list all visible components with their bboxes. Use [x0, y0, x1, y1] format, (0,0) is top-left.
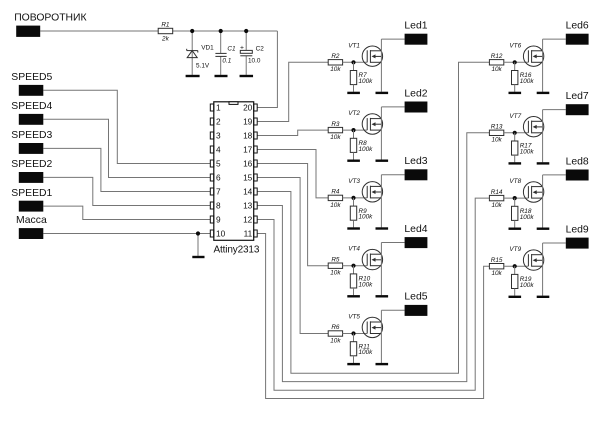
svg-text:VT4: VT4	[348, 246, 360, 253]
svg-text:100k: 100k	[359, 349, 374, 356]
svg-text:Led8: Led8	[566, 156, 589, 167]
svg-text:SPEED3: SPEED3	[11, 130, 52, 141]
svg-text:2k: 2k	[161, 35, 170, 42]
svg-text:15: 15	[243, 173, 253, 183]
svg-text:C1: C1	[227, 46, 236, 53]
svg-text:Led7: Led7	[566, 91, 589, 102]
svg-text:VT5: VT5	[348, 314, 360, 321]
svg-text:20: 20	[243, 103, 253, 113]
svg-text:100k: 100k	[520, 214, 535, 221]
svg-text:18: 18	[243, 131, 253, 141]
svg-text:10k: 10k	[330, 134, 341, 141]
svg-text:17: 17	[243, 145, 253, 155]
svg-text:VT9: VT9	[509, 246, 521, 253]
svg-text:19: 19	[243, 117, 253, 127]
svg-text:SPEED4: SPEED4	[11, 101, 52, 112]
svg-text:10k: 10k	[330, 202, 341, 209]
svg-text:100k: 100k	[520, 282, 535, 289]
svg-text:100k: 100k	[359, 281, 374, 288]
svg-text:10k: 10k	[491, 66, 502, 73]
svg-text:R2: R2	[331, 53, 340, 60]
svg-text:16: 16	[243, 159, 253, 169]
svg-text:SPEED2: SPEED2	[11, 159, 52, 170]
svg-text:VT7: VT7	[509, 113, 521, 120]
svg-text:VT3: VT3	[348, 178, 360, 185]
svg-text:12: 12	[243, 215, 253, 225]
svg-text:10k: 10k	[330, 66, 341, 73]
svg-text:14: 14	[243, 187, 253, 197]
svg-text:Led9: Led9	[566, 224, 589, 235]
svg-text:Led2: Led2	[404, 88, 427, 99]
svg-text:5.1V: 5.1V	[196, 63, 210, 70]
svg-text:4: 4	[216, 145, 221, 155]
svg-text:10k: 10k	[330, 270, 341, 277]
svg-text:VT1: VT1	[348, 42, 360, 49]
svg-text:6: 6	[216, 173, 221, 183]
svg-text:R6: R6	[331, 324, 340, 331]
svg-text:R14: R14	[491, 189, 503, 196]
svg-text:VT6: VT6	[509, 42, 521, 49]
svg-text:R13: R13	[491, 124, 503, 131]
svg-text:SPEED1: SPEED1	[11, 188, 52, 199]
svg-text:9: 9	[216, 215, 221, 225]
svg-text:100k: 100k	[359, 214, 374, 221]
svg-text:R12: R12	[491, 53, 503, 60]
svg-text:Attiny2313: Attiny2313	[214, 244, 260, 255]
svg-text:VT8: VT8	[509, 178, 521, 185]
svg-text:R1: R1	[161, 22, 170, 29]
svg-text:100k: 100k	[520, 149, 535, 156]
svg-text:Led5: Led5	[404, 292, 427, 303]
svg-text:R5: R5	[331, 256, 340, 263]
svg-text:3: 3	[216, 131, 221, 141]
svg-text:SPEED5: SPEED5	[11, 72, 52, 83]
svg-text:0.1: 0.1	[222, 58, 231, 65]
svg-text:100k: 100k	[359, 78, 374, 85]
svg-text:R3: R3	[331, 121, 340, 128]
svg-text:Масса: Масса	[16, 215, 47, 226]
svg-text:13: 13	[243, 201, 253, 211]
svg-text:5: 5	[216, 159, 221, 169]
svg-text:10k: 10k	[491, 202, 502, 209]
svg-text:10k: 10k	[491, 137, 502, 144]
svg-text:C2: C2	[256, 46, 265, 53]
svg-text:VT2: VT2	[348, 110, 360, 117]
svg-text:11: 11	[244, 229, 253, 239]
svg-text:Led1: Led1	[404, 21, 427, 32]
svg-text:ПОВОРОТНИК: ПОВОРОТНИК	[14, 13, 86, 24]
svg-text:R4: R4	[331, 189, 340, 196]
svg-text:7: 7	[216, 187, 221, 197]
svg-text:100k: 100k	[359, 146, 374, 153]
svg-text:+: +	[240, 44, 244, 51]
svg-text:R15: R15	[491, 257, 503, 264]
svg-text:8: 8	[216, 201, 221, 211]
svg-text:2: 2	[216, 117, 221, 127]
svg-text:Led4: Led4	[404, 224, 427, 235]
svg-text:100k: 100k	[520, 78, 535, 85]
svg-text:Led3: Led3	[404, 156, 427, 167]
svg-text:10.0: 10.0	[248, 58, 261, 65]
svg-text:VD1: VD1	[201, 45, 214, 52]
svg-text:10: 10	[216, 229, 226, 239]
svg-text:Led6: Led6	[566, 21, 589, 32]
svg-text:10k: 10k	[491, 270, 502, 277]
svg-text:1: 1	[216, 103, 221, 113]
svg-text:10k: 10k	[330, 337, 341, 344]
